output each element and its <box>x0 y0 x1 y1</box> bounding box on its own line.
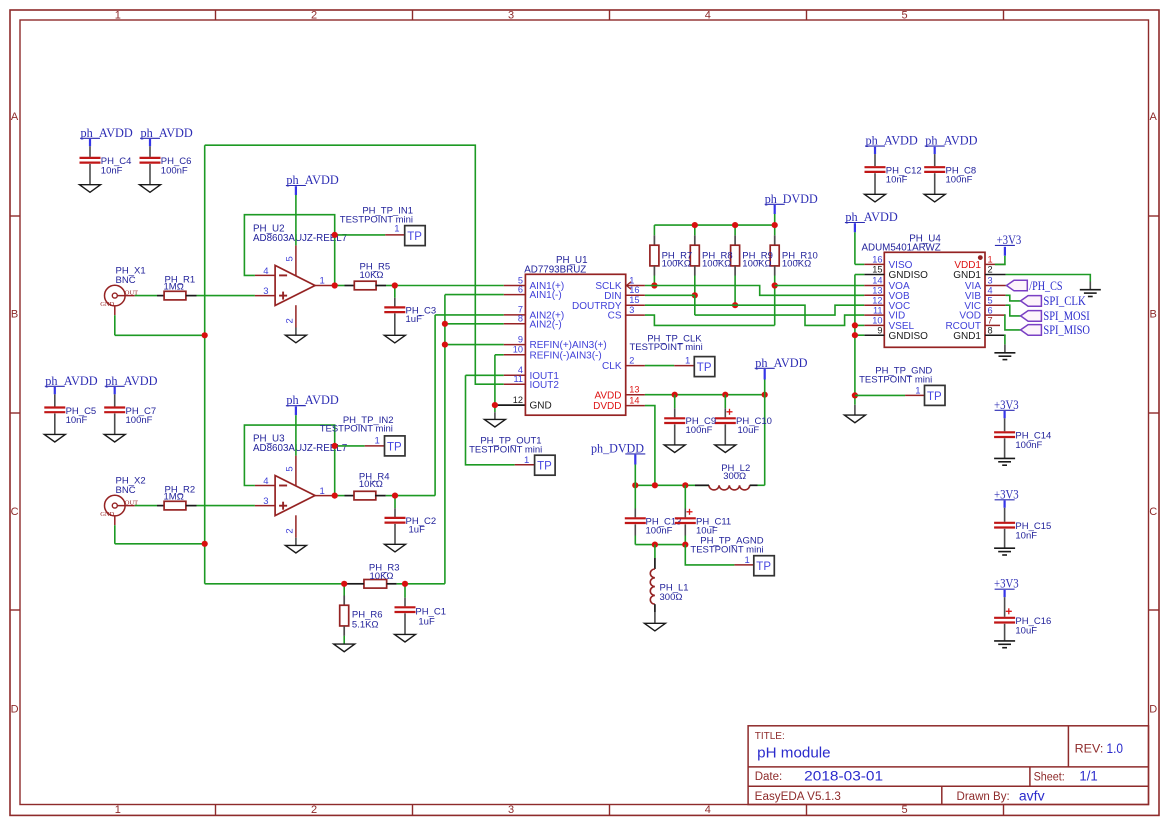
svg-text:10: 10 <box>872 316 882 326</box>
svg-text:4: 4 <box>705 10 711 22</box>
svg-text:4: 4 <box>705 804 711 816</box>
svg-text:5: 5 <box>988 295 993 305</box>
svg-text:100nF: 100nF <box>161 165 188 176</box>
svg-text:10uF: 10uF <box>1015 625 1037 636</box>
svg-text:TESTPOINT mini: TESTPOINT mini <box>320 423 393 434</box>
svg-text:SPI_MISO: SPI_MISO <box>1043 323 1090 337</box>
svg-text:100KΩ: 100KΩ <box>782 259 811 270</box>
svg-text:1: 1 <box>115 804 121 816</box>
svg-text:ph_AVDD: ph_AVDD <box>845 210 897 224</box>
svg-text:1MΩ: 1MΩ <box>164 282 184 293</box>
svg-text:15: 15 <box>872 265 882 275</box>
svg-text:100nF: 100nF <box>646 525 673 536</box>
svg-text:+3V3: +3V3 <box>994 487 1019 501</box>
svg-text:14: 14 <box>872 276 882 286</box>
svg-text:TESTPOINT mini: TESTPOINT mini <box>469 444 542 455</box>
svg-text:5.1KΩ: 5.1KΩ <box>352 619 379 630</box>
svg-text:100nF: 100nF <box>126 415 153 426</box>
svg-text:300Ω: 300Ω <box>660 592 683 603</box>
svg-text:EasyEDA V5.1.3: EasyEDA V5.1.3 <box>755 791 841 803</box>
svg-text:+3V3: +3V3 <box>994 398 1019 412</box>
svg-text:5: 5 <box>901 10 907 22</box>
svg-text:1MΩ: 1MΩ <box>164 492 184 503</box>
svg-text:13: 13 <box>872 286 882 296</box>
svg-text:ADUM5401ARWZ: ADUM5401ARWZ <box>861 243 940 254</box>
svg-text:GNDISO: GNDISO <box>889 270 929 281</box>
svg-text:3: 3 <box>988 276 993 286</box>
svg-text:6: 6 <box>518 284 523 294</box>
svg-text:D: D <box>1149 704 1157 716</box>
svg-text:5: 5 <box>901 804 907 816</box>
svg-text:2: 2 <box>988 265 993 275</box>
svg-text:A: A <box>1150 111 1158 123</box>
svg-text:ph_AVDD: ph_AVDD <box>45 374 97 388</box>
svg-text:Sheet:: Sheet: <box>1034 771 1065 783</box>
svg-text:15: 15 <box>629 295 639 305</box>
svg-text:7: 7 <box>988 316 993 326</box>
svg-text:AIN2(-): AIN2(-) <box>530 319 562 330</box>
svg-text:1: 1 <box>115 10 121 22</box>
svg-text:8: 8 <box>518 314 523 324</box>
svg-text:GND: GND <box>100 301 114 308</box>
svg-text:TP: TP <box>756 561 771 573</box>
svg-text:10KΩ: 10KΩ <box>360 270 384 281</box>
svg-text:3: 3 <box>508 10 514 22</box>
svg-text:4: 4 <box>988 286 993 296</box>
svg-text:Date:: Date: <box>755 771 783 783</box>
svg-text:12: 12 <box>872 295 882 305</box>
svg-text:16: 16 <box>872 255 882 265</box>
svg-text:ph_AVDD: ph_AVDD <box>286 173 338 187</box>
svg-text:1.0: 1.0 <box>1107 741 1124 756</box>
svg-text:9: 9 <box>518 334 523 344</box>
svg-text:ph_AVDD: ph_AVDD <box>286 393 338 407</box>
svg-text:10KΩ: 10KΩ <box>359 479 383 490</box>
svg-text:1uF: 1uF <box>418 616 435 627</box>
svg-text:GND1: GND1 <box>953 270 981 281</box>
svg-text:2: 2 <box>311 804 317 816</box>
svg-text:10: 10 <box>513 345 523 355</box>
svg-text:9: 9 <box>877 325 882 335</box>
svg-text:3: 3 <box>629 305 634 315</box>
svg-text:2: 2 <box>311 10 317 22</box>
svg-text:TP: TP <box>407 231 422 243</box>
svg-text:TP: TP <box>537 461 552 473</box>
svg-text:TITLE:: TITLE: <box>755 730 785 742</box>
svg-text:BNC: BNC <box>116 485 136 496</box>
svg-text:TESTPOINT mini: TESTPOINT mini <box>629 342 702 353</box>
svg-text:10KΩ: 10KΩ <box>370 571 394 582</box>
svg-text:CS: CS <box>608 311 622 322</box>
svg-text:TESTPOINT mini: TESTPOINT mini <box>340 215 413 226</box>
svg-text:DVDD: DVDD <box>593 401 621 412</box>
svg-text:1: 1 <box>320 276 325 287</box>
svg-text:ph_AVDD: ph_AVDD <box>925 134 977 148</box>
svg-text:6: 6 <box>988 305 993 315</box>
svg-text:A: A <box>11 111 19 123</box>
svg-text:TP: TP <box>697 362 712 374</box>
svg-text:SPI_CLK: SPI_CLK <box>1043 294 1085 308</box>
svg-text:100nF: 100nF <box>686 425 713 436</box>
svg-text:GND1: GND1 <box>953 331 981 342</box>
svg-text:10nF: 10nF <box>66 415 88 426</box>
svg-text:100nF: 100nF <box>946 175 973 186</box>
svg-text:B: B <box>11 309 18 321</box>
svg-text:TESTPOINT mini: TESTPOINT mini <box>690 545 763 556</box>
svg-text:AD7793BRUZ: AD7793BRUZ <box>524 264 586 275</box>
svg-text:8: 8 <box>988 325 993 335</box>
svg-text:C: C <box>11 506 19 518</box>
svg-text:1: 1 <box>629 275 634 285</box>
svg-text:pH module: pH module <box>757 745 830 761</box>
svg-text:1: 1 <box>320 486 325 497</box>
svg-text:1/1: 1/1 <box>1079 768 1097 783</box>
svg-text:AIN1(-): AIN1(-) <box>530 290 562 301</box>
svg-text:REV:: REV: <box>1075 743 1104 755</box>
svg-text:B: B <box>1150 309 1157 321</box>
svg-text:/PH_CS: /PH_CS <box>1029 279 1062 293</box>
svg-text:D: D <box>11 704 19 716</box>
svg-text:Drawn By:: Drawn By: <box>957 791 1010 803</box>
svg-text:TESTPOINT mini: TESTPOINT mini <box>859 374 932 385</box>
svg-text:1: 1 <box>745 555 750 566</box>
svg-text:avfv: avfv <box>1019 788 1045 803</box>
svg-text:CLK: CLK <box>602 361 622 372</box>
svg-text:GND: GND <box>530 401 552 412</box>
svg-text:2018-03-01: 2018-03-01 <box>804 768 883 783</box>
svg-text:3: 3 <box>263 496 268 507</box>
svg-text:TP: TP <box>387 441 402 453</box>
svg-text:AVDD: AVDD <box>594 390 621 401</box>
svg-text:+3V3: +3V3 <box>997 233 1022 247</box>
svg-text:ph_AVDD: ph_AVDD <box>755 356 807 370</box>
svg-text:100nF: 100nF <box>1015 440 1042 451</box>
svg-text:300Ω: 300Ω <box>723 471 746 482</box>
svg-text:12: 12 <box>513 395 523 405</box>
svg-text:IOUT2: IOUT2 <box>530 380 560 391</box>
svg-text:1uF: 1uF <box>409 525 426 536</box>
svg-text:1: 1 <box>685 356 690 367</box>
svg-text:11: 11 <box>873 305 883 315</box>
svg-text:1uF: 1uF <box>406 314 423 325</box>
svg-text:4: 4 <box>263 476 268 487</box>
svg-text:10nF: 10nF <box>886 175 908 186</box>
svg-text:5: 5 <box>285 466 296 471</box>
svg-text:2: 2 <box>629 355 634 365</box>
svg-text:11: 11 <box>513 374 523 384</box>
svg-text:4: 4 <box>263 266 268 277</box>
svg-text:100KΩ: 100KΩ <box>702 259 731 270</box>
svg-text:1: 1 <box>988 255 993 265</box>
svg-text:100KΩ: 100KΩ <box>662 259 691 270</box>
svg-text:REFIN(-)AIN3(-): REFIN(-)AIN3(-) <box>530 350 602 361</box>
svg-text:14: 14 <box>629 395 639 405</box>
svg-text:16: 16 <box>629 285 639 295</box>
svg-text:GNDISO: GNDISO <box>889 331 929 342</box>
svg-text:ph_AVDD: ph_AVDD <box>141 126 193 140</box>
svg-text:ph_AVDD: ph_AVDD <box>866 134 918 148</box>
svg-text:3: 3 <box>508 804 514 816</box>
svg-text:10nF: 10nF <box>101 165 123 176</box>
svg-text:1: 1 <box>524 455 529 466</box>
svg-text:10uF: 10uF <box>738 425 760 436</box>
svg-text:13: 13 <box>629 385 639 395</box>
svg-text:2: 2 <box>285 318 296 323</box>
svg-text:1: 1 <box>915 385 920 396</box>
svg-text:2: 2 <box>285 528 296 533</box>
svg-text:100KΩ: 100KΩ <box>742 259 771 270</box>
svg-text:SPI_MOSI: SPI_MOSI <box>1043 309 1089 323</box>
svg-text:C: C <box>1149 506 1157 518</box>
svg-text:3: 3 <box>263 286 268 297</box>
svg-text:GND: GND <box>100 511 114 518</box>
svg-text:1: 1 <box>375 435 380 446</box>
svg-text:ph_AVDD: ph_AVDD <box>105 374 157 388</box>
svg-text:ph_DVDD: ph_DVDD <box>765 192 818 206</box>
svg-text:TP: TP <box>927 391 942 403</box>
svg-text:ph_DVDD: ph_DVDD <box>591 441 644 455</box>
svg-text:ph_AVDD: ph_AVDD <box>81 126 133 140</box>
svg-text:BNC: BNC <box>116 275 136 286</box>
svg-text:+3V3: +3V3 <box>994 577 1019 591</box>
svg-text:10nF: 10nF <box>1015 530 1037 541</box>
svg-text:5: 5 <box>285 256 296 261</box>
